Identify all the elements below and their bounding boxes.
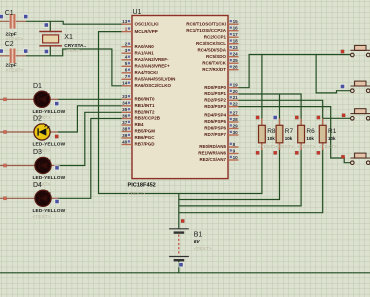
svg-text:16: 16 bbox=[233, 26, 239, 31]
IC U1 PIC18F452 microcontroller bbox=[128, 9, 229, 197]
svg-text:10: 10 bbox=[233, 155, 239, 160]
svg-text:RC4/SDI/SDA: RC4/SDI/SDA bbox=[197, 47, 226, 52]
svg-text:<TEXT>: <TEXT> bbox=[297, 144, 315, 150]
pin 16 RC1/T1OSI/CCP2A (right) bbox=[186, 26, 238, 33]
node D1 pin markers bbox=[3, 98, 59, 107]
svg-text:8: 8 bbox=[233, 142, 236, 147]
svg-text:B1: B1 bbox=[194, 231, 203, 238]
svg-text:29: 29 bbox=[233, 123, 239, 128]
svg-text:RA2/AN2/VREF-: RA2/AN2/VREF- bbox=[135, 57, 170, 62]
svg-text:LED-YELLOW: LED-YELLOW bbox=[33, 142, 66, 148]
pin 30 RD7/PSP7 (right) bbox=[204, 130, 238, 137]
svg-text:13: 13 bbox=[122, 19, 128, 24]
pin 28 RD5/PSP5 (right) bbox=[204, 117, 238, 124]
svg-text:RB2/INT2: RB2/INT2 bbox=[135, 110, 156, 115]
svg-text:10k: 10k bbox=[285, 136, 293, 141]
pin 22 RD3/PSP3 (right) bbox=[204, 102, 238, 109]
svg-text:22: 22 bbox=[233, 102, 239, 107]
svg-text:D2: D2 bbox=[33, 116, 42, 123]
wire branch to button 2 bbox=[316, 55, 350, 93]
pin 9 RE1/WR/AN6 (right) bbox=[198, 148, 238, 155]
svg-text:10k: 10k bbox=[306, 136, 314, 141]
svg-text:5: 5 bbox=[125, 61, 128, 66]
pin 10 RE2/CS/AN7 (right) bbox=[199, 155, 238, 162]
svg-text:40: 40 bbox=[122, 139, 128, 144]
svg-text:RA3/AN3/VREF+: RA3/AN3/VREF+ bbox=[135, 64, 171, 69]
svg-text:RE1/WR/AN6: RE1/WR/AN6 bbox=[198, 151, 226, 156]
svg-text:39: 39 bbox=[122, 133, 128, 138]
wire C1 to OSC1 pin 13 bbox=[26, 21, 122, 24]
svg-text:RB4: RB4 bbox=[135, 122, 144, 127]
wire battery top bbox=[178, 194, 180, 230]
pin 26 RC7/RX/DT (right) bbox=[202, 65, 238, 72]
svg-text:RC3/SCK/SCL: RC3/SCK/SCL bbox=[196, 41, 226, 46]
battery B1 6V bbox=[169, 229, 212, 260]
svg-text:34: 34 bbox=[122, 101, 128, 106]
pin 1 MCLR/VPP (left) bbox=[122, 27, 158, 34]
svg-text:35: 35 bbox=[122, 107, 128, 112]
wire D2 anode to RB1 pin 34 bbox=[58, 106, 122, 132]
node R1 pin markers bbox=[317, 116, 320, 155]
pin 13 OSC1/CLKI (left) bbox=[122, 19, 159, 26]
wire battery positive branch to R7 bottom bbox=[179, 143, 280, 200]
svg-text:30: 30 bbox=[233, 130, 239, 135]
svg-text:<TEXT>: <TEXT> bbox=[33, 214, 51, 220]
node R6 pin markers bbox=[295, 116, 298, 155]
pin 7 RA5/AN4/SS/LVDIN (left) bbox=[122, 74, 176, 81]
pin 29 RD6/PSP6 (right) bbox=[204, 123, 238, 130]
svg-text:23: 23 bbox=[233, 45, 239, 50]
node D4 pin markers bbox=[3, 197, 59, 205]
pin 4 RA2/AN2/VREF- (left) bbox=[122, 55, 170, 62]
pin 33 RB0/INT0 (left) bbox=[122, 94, 156, 101]
svg-text:PIC18F452: PIC18F452 bbox=[128, 183, 156, 189]
svg-text:2: 2 bbox=[125, 42, 128, 47]
pin 36 RB3/CCP2B (left) bbox=[122, 113, 161, 120]
LED D4 LED-YELLOW bbox=[0, 182, 66, 220]
svg-text:17: 17 bbox=[233, 32, 239, 37]
svg-text:RA1/AN1: RA1/AN1 bbox=[135, 50, 155, 55]
svg-text:36: 36 bbox=[122, 113, 128, 118]
svg-text:10k: 10k bbox=[267, 136, 275, 141]
svg-text:RB5/PGM: RB5/PGM bbox=[135, 129, 156, 134]
svg-text:26: 26 bbox=[233, 65, 239, 70]
svg-text:33: 33 bbox=[122, 94, 128, 99]
pin 24 RC5/SDO (right) bbox=[206, 52, 239, 59]
wire C2 to OSC2 pin 14 bbox=[26, 49, 122, 86]
svg-text:<TEXT>: <TEXT> bbox=[276, 144, 294, 150]
svg-text:LED-YELLOW: LED-YELLOW bbox=[33, 109, 66, 115]
svg-text:C2: C2 bbox=[5, 41, 14, 48]
svg-text:RC2/CCP1: RC2/CCP1 bbox=[204, 34, 227, 39]
button SW3 bbox=[350, 109, 370, 120]
pin 3 RA1/AN1 (left) bbox=[122, 48, 155, 55]
svg-text:27: 27 bbox=[233, 110, 239, 115]
svg-text:<TEXT>: <TEXT> bbox=[194, 246, 212, 252]
pin 6 RA4/T0CKI (left) bbox=[122, 68, 158, 75]
svg-text:RB7/PGD: RB7/PGD bbox=[135, 142, 156, 147]
svg-text:20: 20 bbox=[233, 89, 239, 94]
pin 23 RC4/SDI/SDA (right) bbox=[197, 45, 238, 52]
pin 40 RB7/PGD (left) bbox=[122, 139, 156, 146]
pin 39 RB6/PGC (left) bbox=[122, 133, 156, 140]
wire battery negative to ground rail bbox=[178, 261, 180, 273]
wire D4 anode to RB3 pin 36 bbox=[58, 119, 122, 199]
wire ground rail bbox=[0, 272, 370, 274]
svg-text:R7: R7 bbox=[285, 128, 294, 135]
wire RD3 pin 22 to button 4 bbox=[239, 107, 351, 163]
svg-text:9: 9 bbox=[233, 148, 236, 153]
svg-text:14: 14 bbox=[122, 81, 128, 86]
svg-text:RA6/OSC2/CLKO: RA6/OSC2/CLKO bbox=[135, 83, 172, 88]
pin 35 RB2/INT2 (left) bbox=[122, 107, 156, 114]
pin 27 RD4/PSP4 (right) bbox=[204, 110, 238, 117]
wire RD2 pin 21 to R1 top bbox=[239, 100, 323, 125]
wire RD1 pin 20 to R7 top and R6 top bbox=[239, 94, 302, 126]
wire MCLR pin 1 to battery positive rail bbox=[99, 32, 262, 194]
svg-text:RE2/CS/AN7: RE2/CS/AN7 bbox=[199, 157, 226, 162]
node crystal pin markers bbox=[44, 22, 50, 54]
svg-text:6V: 6V bbox=[194, 239, 201, 245]
svg-text:LED-YELLOW: LED-YELLOW bbox=[33, 175, 66, 181]
svg-text:RB1/INT1: RB1/INT1 bbox=[135, 103, 156, 108]
svg-text:RD6/PSP6: RD6/PSP6 bbox=[204, 126, 226, 131]
svg-text:RD5/PSP5: RD5/PSP5 bbox=[204, 119, 226, 124]
svg-text:D1: D1 bbox=[33, 83, 42, 90]
svg-text:D3: D3 bbox=[33, 149, 42, 156]
svg-text:RA0/AN0: RA0/AN0 bbox=[135, 44, 155, 49]
svg-text:U1: U1 bbox=[133, 9, 142, 16]
svg-text:28: 28 bbox=[233, 117, 239, 122]
svg-text:RD3/PSP3: RD3/PSP3 bbox=[204, 104, 226, 109]
svg-text:C1: C1 bbox=[5, 10, 14, 17]
button SW2 bbox=[350, 81, 370, 92]
node SW3 pin marker bbox=[342, 114, 345, 117]
svg-text:7: 7 bbox=[125, 74, 128, 79]
svg-text:RB0/INT0: RB0/INT0 bbox=[135, 97, 156, 102]
pin 21 RD2/PSP2 (right) bbox=[204, 95, 238, 102]
pin 15 RC0/T1OSO/T1CKI (right) bbox=[186, 19, 238, 26]
pin 20 RD1/PSP1 (right) bbox=[204, 89, 238, 96]
resistor R8 10k bbox=[258, 119, 276, 151]
wire battery positive branch to R1 bottom bbox=[179, 143, 323, 213]
node R7 pin markers bbox=[273, 115, 278, 155]
svg-text:22pF: 22pF bbox=[6, 31, 17, 37]
button SW4 bbox=[350, 153, 370, 164]
resistor R6 10k bbox=[297, 119, 315, 151]
svg-text:<TEXT>: <TEXT> bbox=[6, 68, 24, 74]
svg-text:RD0/PSP0: RD0/PSP0 bbox=[204, 85, 226, 90]
button SW1 bbox=[350, 45, 370, 56]
wire battery positive branch to R6 bottom bbox=[179, 143, 301, 206]
svg-text:MCLR/VPP: MCLR/VPP bbox=[135, 29, 158, 34]
svg-text:RC0/T1OSO/T1CKI: RC0/T1OSO/T1CKI bbox=[186, 21, 226, 26]
svg-text:RC5/SDO: RC5/SDO bbox=[206, 54, 227, 59]
svg-text:21: 21 bbox=[233, 95, 239, 100]
crystal X1 bbox=[39, 32, 86, 55]
svg-text:6: 6 bbox=[125, 68, 128, 73]
svg-text:D4: D4 bbox=[33, 182, 42, 189]
wire crystal top pin bbox=[49, 21, 51, 31]
capacitor C2 22pF bbox=[0, 41, 26, 74]
svg-text:RD7/PSP7: RD7/PSP7 bbox=[204, 132, 226, 137]
pin 2 RA0/AN0 (left) bbox=[122, 42, 155, 49]
svg-text:OSC1/CLKI: OSC1/CLKI bbox=[135, 21, 159, 26]
svg-text:37: 37 bbox=[122, 120, 128, 125]
resistor R1 10k bbox=[319, 119, 337, 151]
svg-text:1: 1 bbox=[125, 27, 128, 32]
svg-text:RC6/TX/CK: RC6/TX/CK bbox=[202, 60, 227, 65]
LED D2 LED-YELLOW bbox=[0, 116, 66, 154]
svg-text:25: 25 bbox=[233, 58, 239, 63]
pin 25 RC6/TX/CK (right) bbox=[202, 58, 238, 65]
svg-text:10k: 10k bbox=[328, 136, 336, 141]
node B1 pin markers bbox=[178, 219, 184, 267]
svg-text:RB6/PGC: RB6/PGC bbox=[135, 135, 156, 140]
svg-text:X1: X1 bbox=[64, 34, 73, 41]
svg-text:RC1/T1OSI/CCP2A: RC1/T1OSI/CCP2A bbox=[186, 28, 227, 33]
svg-text:RD2/PSP2: RD2/PSP2 bbox=[204, 98, 226, 103]
svg-text:19: 19 bbox=[233, 83, 239, 88]
node C1 pin markers bbox=[0, 14, 28, 19]
svg-text:RB3/CCP2B: RB3/CCP2B bbox=[135, 116, 161, 121]
capacitor C1 22pF bbox=[0, 10, 26, 43]
wire RD0 pin 19 to button 1 bbox=[239, 55, 351, 88]
svg-text:RA4/T0CKI: RA4/T0CKI bbox=[135, 70, 158, 75]
svg-text:<TEXT>: <TEXT> bbox=[128, 191, 146, 197]
svg-text:4: 4 bbox=[125, 55, 128, 60]
node C2 pin markers bbox=[0, 48, 28, 53]
pin 8 RE0/RD/AN5 (right) bbox=[199, 142, 238, 149]
svg-text:RD4/PSP4: RD4/PSP4 bbox=[204, 113, 226, 118]
svg-text:24: 24 bbox=[233, 52, 239, 57]
svg-text:LED-YELLOW: LED-YELLOW bbox=[33, 208, 66, 214]
pin 18 RC3/SCK/SCL (right) bbox=[196, 39, 239, 46]
pin 19 RD0/PSP0 (right) bbox=[204, 83, 238, 90]
wire junction to R8 top bbox=[261, 55, 263, 126]
svg-text:38: 38 bbox=[122, 126, 128, 131]
pin 5 RA3/AN3/VREF+ (left) bbox=[122, 61, 171, 68]
pin 34 RB1/INT1 (left) bbox=[122, 101, 156, 108]
wire crystal bottom pin bbox=[49, 46, 51, 56]
node D2 pin markers bbox=[3, 130, 58, 138]
pin 17 RC2/CCP1 (right) bbox=[204, 32, 239, 39]
svg-text:RA5/AN4/SS/LVDIN: RA5/AN4/SS/LVDIN bbox=[135, 77, 176, 82]
svg-text:R6: R6 bbox=[306, 128, 315, 135]
svg-text:<TEXT>: <TEXT> bbox=[258, 144, 276, 150]
svg-text:<TEXT>: <TEXT> bbox=[64, 48, 82, 54]
node SW1 pin marker bbox=[341, 50, 344, 53]
node D3 pin markers bbox=[3, 164, 59, 171]
svg-text:18: 18 bbox=[233, 39, 239, 44]
pin 14 RA6/OSC2/CLKO (left) bbox=[122, 81, 172, 88]
LED D1 LED-YELLOW bbox=[0, 83, 66, 121]
wire R1 top junction to button 3 bbox=[323, 117, 351, 119]
svg-text:22pF: 22pF bbox=[6, 63, 17, 69]
svg-text:<TEXT>: <TEXT> bbox=[319, 144, 337, 150]
wire D1 anode to RB0 pin 33 bbox=[58, 98, 122, 100]
node SW4 pin marker bbox=[341, 155, 344, 158]
svg-text:RC7/RX/DT: RC7/RX/DT bbox=[202, 67, 226, 72]
LED D3 LED-YELLOW bbox=[0, 149, 66, 187]
node SW2 pin marker bbox=[340, 84, 345, 89]
svg-text:RE0/RD/AN5: RE0/RD/AN5 bbox=[199, 144, 226, 149]
svg-text:RD1/PSP1: RD1/PSP1 bbox=[204, 91, 226, 96]
wire D3 anode to RB2 pin 35 bbox=[58, 112, 122, 165]
svg-text:R1: R1 bbox=[328, 128, 337, 135]
svg-text:3: 3 bbox=[125, 48, 128, 53]
pin 37 RB4 (left) bbox=[122, 120, 144, 127]
resistor R7 10k bbox=[276, 119, 294, 151]
svg-text:15: 15 bbox=[233, 19, 239, 24]
node R8 pin markers bbox=[256, 116, 259, 155]
pin 38 RB5/PGM (left) bbox=[122, 126, 156, 133]
svg-text:R8: R8 bbox=[267, 128, 276, 135]
